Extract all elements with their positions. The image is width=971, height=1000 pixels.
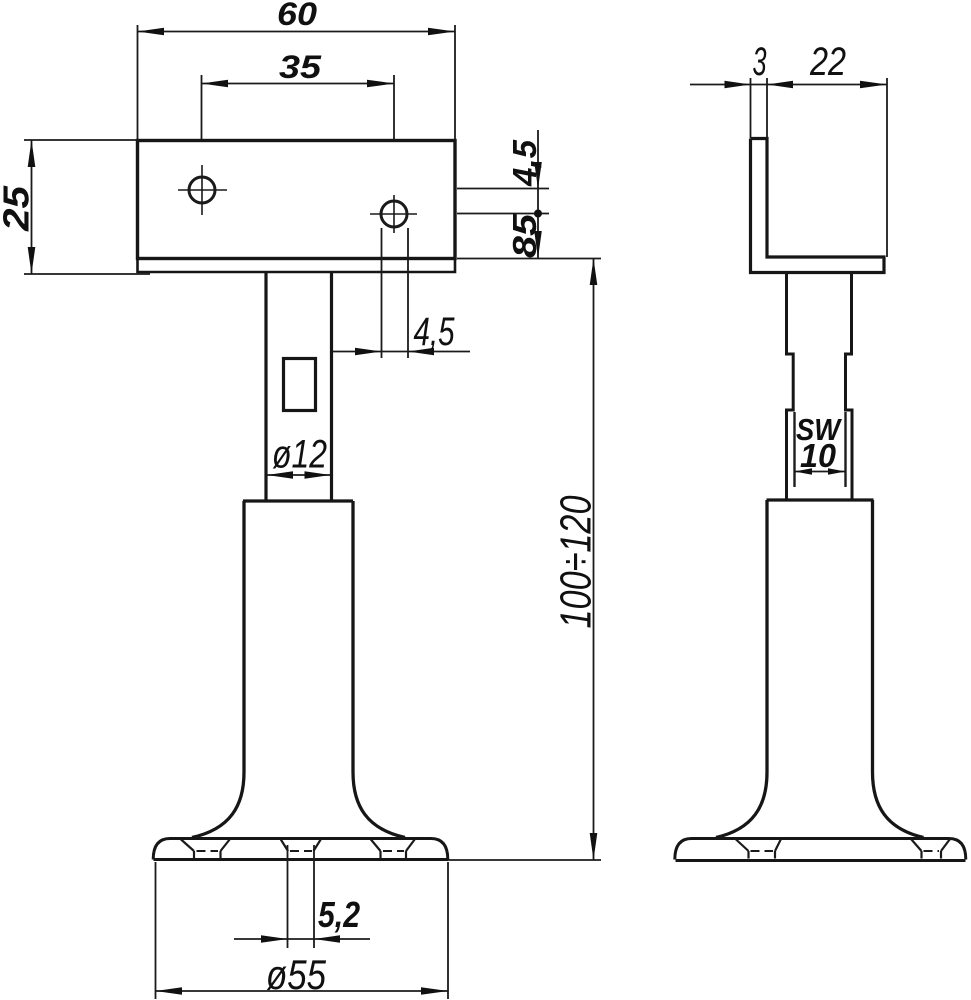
dim 35 [202, 75, 395, 139]
dim 25 (left, vertical) [24, 140, 150, 274]
SW10 dim [795, 471, 846, 473]
svg-text:5,2: 5,2 [318, 894, 360, 935]
svg-text:22: 22 [809, 40, 846, 84]
dim 4,5 (hole dia) [332, 228, 470, 358]
L profile [751, 139, 885, 273]
countersink marks on base (front) [181, 839, 416, 859]
dim ø55 [156, 862, 449, 999]
dim 5,2 [234, 845, 370, 948]
svg-text:3: 3 [753, 40, 767, 84]
plate outline [138, 141, 456, 273]
svg-text:4,5: 4,5 [506, 139, 543, 187]
right chain dims 4,5 and 85 [457, 130, 601, 259]
svg-text:85: 85 [506, 213, 543, 258]
dim 60 [138, 25, 456, 140]
svg-text:35: 35 [279, 49, 322, 85]
stem (front) [266, 272, 332, 501]
spool / trumpet column (front) [192, 501, 405, 838]
left hole [178, 165, 227, 215]
slot in stem [284, 359, 316, 411]
side stem with hex section [787, 274, 853, 500]
base disc (side) [675, 839, 966, 861]
svg-text:10: 10 [800, 437, 837, 474]
svg-text:100÷120: 100÷120 [552, 495, 601, 628]
svg-text:ø55: ø55 [266, 951, 327, 998]
countersink marks on base (side) [736, 839, 951, 859]
svg-text:25: 25 [0, 185, 37, 232]
svg-text:60: 60 [277, 0, 317, 32]
base disc (front) [153, 839, 448, 860]
dim ø12 [267, 474, 331, 476]
right hole [370, 195, 417, 233]
plate bottom lip [138, 259, 456, 273]
svg-text:4,5: 4,5 [414, 310, 456, 354]
dims 3 and 22 (side top) [690, 78, 887, 257]
dim 100÷120 [448, 259, 601, 861]
spool / trumpet column (side) [716, 500, 924, 838]
svg-text:ø12: ø12 [272, 433, 327, 477]
